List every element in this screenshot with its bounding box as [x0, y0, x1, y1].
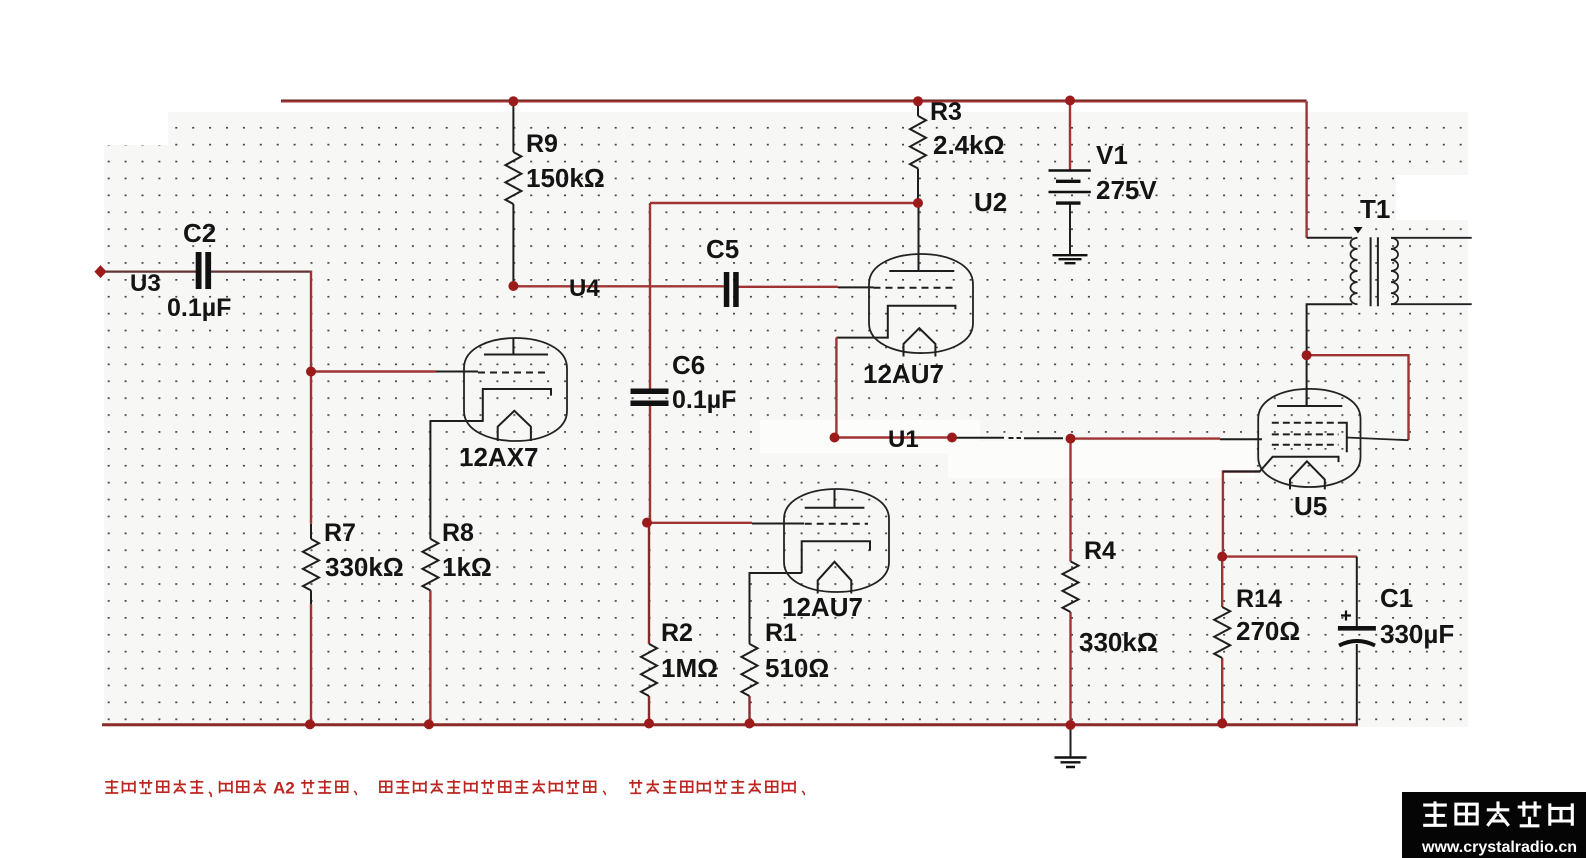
wire U5 screen to loop: [1347, 438, 1409, 441]
node R9 top: [508, 96, 518, 106]
ground below V1: [1053, 255, 1088, 263]
node R4 bottom: [1066, 720, 1076, 730]
wire grid node down to R7: [310, 372, 312, 524]
svg-text:330kΩ: 330kΩ: [1079, 627, 1158, 657]
svg-text:270Ω: 270Ω: [1236, 616, 1300, 646]
wire C1 bottom lead: [1356, 644, 1358, 724]
wire top B+ rail: [281, 100, 1307, 101]
svg-text:C2: C2: [183, 218, 216, 248]
node U3 input terminal: [94, 265, 160, 297]
wire U5 plate pin: [1306, 355, 1308, 406]
svg-text:V1: V1: [1096, 140, 1128, 170]
wire U1 node to broken segment: [835, 436, 953, 438]
svg-text:R4: R4: [1084, 537, 1116, 565]
wire R1 bottom lead: [748, 696, 750, 724]
wire plate feed vertical x650: [649, 203, 651, 391]
node R8 bottom: [424, 719, 434, 729]
capacitor C1: [1338, 583, 1454, 649]
svg-text:A2: A2: [273, 779, 295, 798]
tube U2 12AU7: [863, 254, 973, 389]
wire R14 top lead: [1221, 557, 1223, 607]
svg-text:U2: U2: [974, 187, 1007, 217]
node U1 mid: [947, 433, 957, 443]
wire C6 bottom to R2 node: [649, 403, 651, 523]
wire U5 node loop right: [1307, 355, 1409, 440]
node R14 bottom: [1217, 719, 1227, 729]
wire U1 cathode exit to R1: [750, 573, 802, 644]
resistor R2: [641, 619, 718, 696]
resistor R14: [1214, 585, 1300, 658]
tube U5 pentode: [1223, 389, 1361, 521]
wire C2 to corner: [211, 271, 311, 273]
resistor R7: [303, 519, 404, 604]
label U2: [974, 187, 1007, 217]
svg-text:12AX7: 12AX7: [459, 442, 539, 472]
node R7 bottom: [305, 719, 315, 729]
wire U2 plate pin: [918, 203, 920, 271]
annotation red chinese note: [105, 779, 804, 798]
svg-text:2.4kΩ: 2.4kΩ: [933, 130, 1004, 160]
svg-text:330µF: 330µF: [1380, 619, 1454, 649]
node R4 top: [1066, 434, 1076, 444]
wire U1 broken middle: [954, 437, 1063, 439]
wire R7 bottom lead: [310, 604, 312, 724]
wire x650 top to R3 node: [650, 202, 918, 204]
tube U1 12AU7: [782, 489, 889, 622]
wire R3 bottom lead: [917, 169, 919, 204]
node grid U3: [306, 367, 316, 377]
wire R14 node to C1: [1222, 555, 1357, 557]
resistor R3: [910, 98, 1004, 169]
wire U1 node2 to U5 grid: [1071, 437, 1263, 440]
node V1 top: [1065, 96, 1075, 106]
wire U4 node to C5: [513, 285, 723, 287]
node R14 top: [1217, 552, 1227, 562]
wire corner down to grid node: [310, 271, 312, 372]
svg-text:U3: U3: [130, 270, 161, 297]
node T1 U5: [1302, 350, 1312, 360]
node U1 plate: [830, 433, 840, 443]
resistor R8: [422, 519, 491, 590]
svg-text:R8: R8: [442, 519, 474, 547]
svg-text:C6: C6: [672, 350, 705, 380]
wire V1 top lead: [1069, 101, 1071, 171]
wire R9 bottom lead to U4 node: [512, 204, 514, 286]
svg-text:R14: R14: [1236, 585, 1282, 613]
wire R4 top lead: [1069, 439, 1071, 562]
capacitor C2: [167, 218, 231, 322]
node U4: [508, 281, 518, 291]
wire U2 cathode stub: [836, 337, 887, 339]
svg-text:U4: U4: [569, 275, 600, 302]
svg-text:150kΩ: 150kΩ: [526, 163, 605, 193]
svg-text:0.1µF: 0.1µF: [167, 294, 231, 322]
svg-text:275V: 275V: [1096, 175, 1157, 205]
wire input to C2: [101, 271, 197, 273]
wire bottom ground rail: [102, 723, 1358, 726]
wire grid node to U3 tube grid: [311, 370, 478, 372]
svg-text:330kΩ: 330kΩ: [325, 552, 404, 582]
label U1: [888, 426, 919, 453]
wire T1 primary top lead: [1307, 237, 1353, 239]
resistor R4: [1063, 537, 1158, 657]
wire U3 cathode exit to R8: [430, 421, 483, 539]
svg-text:U1: U1: [888, 426, 919, 453]
node R1 bottom: [745, 719, 755, 729]
svg-text:0.1µF: 0.1µF: [672, 386, 736, 414]
svg-text:U5: U5: [1294, 491, 1327, 521]
wire R2 node to U1 tube grid: [647, 522, 804, 525]
svg-text:C5: C5: [706, 234, 739, 264]
svg-text:12AU7: 12AU7: [782, 592, 863, 622]
svg-text:R2: R2: [661, 619, 693, 647]
svg-text:R7: R7: [324, 519, 356, 547]
battery V1: [1049, 140, 1158, 205]
svg-text:www.crystalradio.cn: www.crystalradio.cn: [1421, 839, 1577, 856]
svg-text:C1: C1: [1380, 583, 1413, 613]
svg-text:1MΩ: 1MΩ: [661, 653, 718, 683]
wire R3 top lead: [917, 101, 919, 116]
transformer T1: [1350, 194, 1471, 306]
capacitor C5: [706, 234, 739, 307]
wire R2 node down to R2: [648, 523, 650, 644]
wire C5 to U2 grid: [734, 286, 874, 289]
label U4: [569, 275, 600, 302]
wire R14 bottom lead: [1221, 658, 1223, 724]
node R2 bottom: [644, 719, 654, 729]
resistor R9: [505, 130, 604, 204]
wire R4 bottom lead: [1069, 612, 1071, 725]
svg-text:510Ω: 510Ω: [765, 653, 829, 683]
wire R9 top lead: [512, 101, 514, 152]
wire R2 bottom lead: [648, 696, 650, 724]
wire C1 top lead: [1356, 557, 1358, 626]
node R2 grid: [642, 518, 652, 528]
wire U5 cathode exit: [1223, 472, 1260, 557]
svg-text:R9: R9: [526, 130, 558, 158]
node R3 bottom U2 plate: [913, 198, 923, 208]
svg-text:1kΩ: 1kΩ: [442, 552, 492, 582]
ground below R4: [1055, 725, 1087, 767]
wire V1 bottom to ground: [1069, 203, 1071, 254]
watermark crystalradio logo: [1402, 792, 1586, 858]
node R3 top: [913, 96, 923, 106]
svg-text:R3: R3: [930, 98, 962, 126]
svg-text:T1: T1: [1360, 194, 1390, 224]
wire U2 cathode down to U1 node: [835, 338, 837, 438]
wire T1 primary bottom lead: [1307, 304, 1353, 355]
wire R8 bottom lead: [429, 590, 431, 724]
tube U3 12AX7: [459, 338, 567, 472]
resistor R1: [742, 619, 830, 696]
wire rail right drop to T1: [1305, 101, 1307, 238]
capacitor C6: [631, 350, 737, 414]
svg-text:12AU7: 12AU7: [863, 359, 944, 389]
svg-text:R1: R1: [765, 619, 797, 647]
